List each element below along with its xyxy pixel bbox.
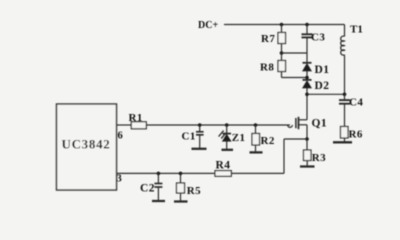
resistor R7: [261, 25, 286, 54]
node junction dot C2: [157, 172, 161, 176]
ground under R2: [250, 151, 263, 153]
resistor R2: [252, 125, 275, 152]
node junction dot Z1: [225, 123, 229, 127]
ground under R3: [300, 165, 315, 167]
capacitor C3: [302, 25, 326, 63]
IC U1 UC3842: [57, 104, 123, 190]
resistor R5: [177, 173, 202, 201]
wire R1 to gate: [146, 124, 290, 126]
capacitor C1: [182, 125, 204, 149]
wire drain node to C4 node: [307, 93, 345, 95]
svg-text:R2: R2: [261, 135, 275, 147]
capacitor C4: [339, 94, 363, 126]
svg-text:6: 6: [118, 131, 123, 142]
diode D1: [303, 63, 330, 80]
node junction dot C3 top: [305, 23, 309, 27]
svg-text:R4: R4: [216, 160, 231, 172]
resistor R3: [304, 139, 327, 167]
node junction dot R7 bottom: [280, 51, 284, 55]
transformer T1: [341, 24, 363, 56]
wire pin 3 line: [117, 172, 216, 174]
svg-text:D1: D1: [315, 64, 330, 76]
ground under R5: [174, 200, 188, 202]
node junction dot source: [305, 137, 309, 141]
svg-text:C3: C3: [311, 32, 325, 44]
svg-text:R1: R1: [129, 112, 143, 124]
svg-text:R8: R8: [260, 62, 274, 74]
resistor R4: [215, 160, 231, 177]
wire R8 bottom to D1-D2 node: [282, 77, 308, 79]
svg-text:3: 3: [117, 174, 122, 185]
wire R7 bottom to C3 bottom: [282, 52, 308, 54]
svg-text:Z1: Z1: [232, 132, 246, 144]
svg-text:T1: T1: [350, 24, 363, 36]
svg-text:DC+: DC+: [198, 20, 218, 31]
node junction dot R5: [179, 172, 183, 176]
node junction dot D1-D2: [305, 76, 309, 80]
wire T1 bottom to C4 node: [344, 55, 346, 95]
wire source to sense corner: [284, 138, 307, 140]
capacitor C2: [140, 173, 162, 201]
svg-text:C4: C4: [349, 97, 363, 109]
ground under Z1: [222, 149, 234, 151]
node junction dot R7 top: [280, 23, 284, 27]
svg-text:UC3842: UC3842: [62, 137, 111, 152]
wire pin 6 to R1: [117, 124, 132, 126]
ground under C2: [152, 200, 165, 202]
wire top rail DC+ to T1: [224, 24, 345, 26]
resistor R8: [260, 53, 286, 78]
svg-text:R3: R3: [312, 152, 326, 164]
svg-text:Q1: Q1: [312, 118, 328, 130]
transistor Q1 (MOSFET): [288, 117, 327, 139]
svg-text:R6: R6: [349, 129, 363, 141]
ground under C1: [192, 148, 207, 150]
node junction dot C4 top: [343, 93, 347, 97]
node junction dot drain node: [305, 93, 309, 97]
svg-text:R7: R7: [261, 33, 275, 45]
svg-text:C1: C1: [182, 131, 196, 143]
node junction dot C1: [198, 123, 202, 127]
svg-text:C2: C2: [140, 183, 155, 195]
resistor R1: [129, 112, 147, 129]
zener Z1: [219, 125, 246, 150]
resistor R6: [341, 127, 363, 143]
ground under R6: [333, 141, 352, 143]
wire sense vertical: [283, 139, 285, 173]
node junction dot R2: [254, 123, 258, 127]
diode D2: [303, 80, 330, 120]
wire R4 to sense corner: [231, 172, 284, 174]
svg-text:R5: R5: [187, 185, 201, 197]
svg-text:D2: D2: [315, 80, 330, 92]
